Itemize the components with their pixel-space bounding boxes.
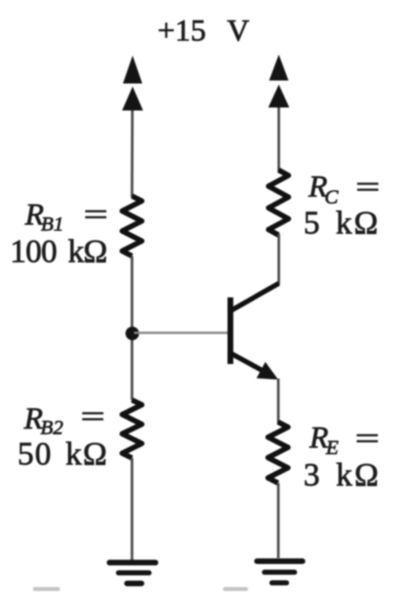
wire: right supply lead <box>277 96 280 171</box>
resistor RC <box>269 170 289 235</box>
resistor RE <box>268 422 288 483</box>
svg-text:=: = <box>355 421 380 456</box>
svg-text:100 kΩ: 100 kΩ <box>10 234 108 270</box>
arrowhead right top <box>269 55 288 81</box>
svg-text:=: = <box>84 197 109 232</box>
wire: RB2 to ground <box>131 458 134 561</box>
svg-text:+15: +15 <box>158 13 206 48</box>
transistor Q1 collector lead <box>231 283 279 311</box>
wire: base wire from node to transistor <box>134 332 228 334</box>
node dot <box>126 327 140 341</box>
arrowhead right lower <box>268 85 289 108</box>
wire: RE to ground <box>277 483 280 558</box>
svg-text:=: = <box>356 169 381 204</box>
ground left <box>110 563 156 584</box>
wire: RB1 to node to RB2 <box>131 256 134 400</box>
transistor Q1 emitter arrowhead <box>257 362 279 380</box>
wire: emitter to RE <box>277 379 280 424</box>
arrowhead left top <box>123 56 142 84</box>
svg-text:E: E <box>325 437 339 459</box>
svg-text:B1: B1 <box>41 214 64 236</box>
faint cropped caption remnants <box>33 587 248 591</box>
svg-text:3 kΩ: 3 kΩ <box>304 458 379 494</box>
arrowhead left lower <box>122 87 143 111</box>
svg-text:5 kΩ: 5 kΩ <box>304 206 379 242</box>
svg-text:V: V <box>227 13 250 48</box>
transistor Q1 emitter lead <box>231 353 266 372</box>
resistor RB2 <box>122 400 142 458</box>
transistor Q1 base bar <box>227 297 233 364</box>
wire: left supply lead <box>131 98 134 197</box>
svg-text:50 kΩ: 50 kΩ <box>18 437 108 473</box>
resistor RB1 <box>122 196 142 256</box>
ground right <box>257 561 303 583</box>
wire: RC to collector <box>277 234 280 284</box>
svg-text:=: = <box>81 399 106 434</box>
